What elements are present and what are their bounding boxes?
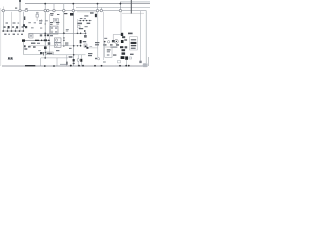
wire x28 drop [28,33,30,38]
IC U1 box [50,26,58,34]
capacitor dark x81 [80,59,82,62]
transistor dark blob x127 [125,56,128,59]
connector row 3 [131,42,137,44]
label above line x63 [60,63,66,66]
tube pin circle P10 [119,9,121,11]
node bottom x128.6 [128,65,130,67]
node rail b [7,30,9,32]
wire top bus V3 [76,7,150,9]
label row1 left d [22,26,24,27]
label row1 left b [12,26,14,28]
relay box upper [54,38,61,42]
label row2 left c [13,34,15,35]
label x88 y23 [87,23,91,24]
component dark x45 y47 [44,46,47,49]
label dash x34 y22 [34,22,36,23]
wire up from connector [147,57,149,66]
diode box x85 [84,44,87,47]
label dash near x16 [15,8,17,9]
label dash x58 [57,14,59,15]
node y33 x64 [63,32,65,34]
component small box x26 y10 [25,10,27,12]
wire drop P1 [2,12,4,31]
label right of IC b [66,30,68,33]
label 30- above table [128,33,133,35]
label dash x81 y18 [80,17,83,20]
label rowA left b [13,22,16,23]
label x34 y47 [33,46,36,48]
wire x64 y33-46 [63,33,65,46]
node y33 x85 [85,33,87,35]
relay box lower [54,43,61,47]
wire drop x63 [63,4,65,10]
symbol in transformer [107,54,110,55]
label dash x132 y54 [130,54,134,55]
wire top bus V2 [25,3,150,5]
wire x81 up [80,55,82,59]
tube pin circle P8 [96,9,98,11]
wire drop x11 [10,12,12,31]
pin circle x98.6 y59 [98,58,100,60]
node x105 y41 [104,41,106,43]
component dark x73 y60 [73,59,75,62]
node x45 y52.4 [45,52,46,53]
label x41 y35 [40,34,42,36]
label light right of blob [129,57,131,59]
node bottom x54 [53,65,55,67]
wire long vertical x97 [97,12,99,58]
wire drop x73 [72,4,74,10]
node x73 y54.8 [73,54,75,56]
label x29 y46 [28,46,31,48]
label dark col y50 [122,49,126,51]
wire x57 drop [56,58,58,66]
label x49 y43 [48,42,50,45]
label x80 y28 [79,28,83,29]
label x46 y20 [45,20,48,21]
transistor circle x116 [115,40,119,44]
component dark seg x24 [24,16,25,20]
node x97 [97,3,99,5]
wire x78 seg [77,55,79,59]
node y20 b [83,20,84,21]
component dark x122 y41 [121,40,124,43]
label x125 y40 [124,39,127,40]
wire heater bus lower pair [77,11,97,13]
wire rail y45.8 [29,45,81,47]
box small x78 y26 [78,26,80,28]
component x67 dark seg [66,62,67,65]
component dark x85 y35 [84,35,86,38]
IC U1 pin circle 2 [51,31,53,33]
label dash x32 [31,26,34,29]
wire drop x97 [97,4,99,10]
label row1 left a [4,26,6,28]
label x86 y15 [84,15,88,16]
wire stub x7.5 [7,28,9,31]
component dark x113 y41 [112,40,115,42]
connector grey blob right [143,63,148,67]
wire x140 vertical [140,11,142,63]
node y20 d [89,20,90,21]
label x105 y45 [104,44,107,45]
node x64 y37.9 [63,37,65,39]
connector row 4 [131,45,136,46]
node bottom x79 [78,65,80,67]
component x140 bottom [139,61,141,63]
wire vertical x121 [120,12,122,33]
wire dark vertical x131 [130,0,132,14]
wire bottom line [2,65,144,67]
label dark col y53 [122,52,126,54]
IC U1 pad 1 [55,27,57,29]
label faint x90 y46 [90,45,93,48]
wire dark x43 [42,52,44,55]
label dash x28 y22 [28,22,31,23]
wire x105 up [104,42,106,47]
capacitor dark x80 [80,40,82,43]
label x84 y41 [83,41,86,42]
label text x57 r1 [56,22,59,23]
node bottom x70.8 [70,65,72,67]
wire x67 drop [66,55,68,66]
label dash x40 [40,27,42,30]
node y45.8 x73 [73,45,75,47]
node x120 [120,3,122,5]
label x57 y50 [56,50,59,51]
wire faint x41.3 [40,19,42,24]
node bottom x120 [119,65,121,67]
wire y47.9 to x97.8 [88,47,97,49]
label x33 y43 [31,43,35,44]
wire long vertical x45 [44,12,46,58]
node x45 y23.8 [45,23,46,24]
wire x127 drop [126,60,128,66]
component blob x24 y25 [23,24,25,27]
node rail f [23,30,25,32]
label x90 y55.5 [88,55,92,56]
node rail d [15,30,17,32]
node bottom x83 [82,65,84,67]
wire left rail [2,30,24,32]
label x40 y20 [39,20,42,21]
IC U1 pad 2 [55,31,57,33]
label in transformer [107,49,111,50]
diode dark mark [85,46,87,48]
label in transformer2 [107,51,110,52]
wire x77 stub [77,29,79,33]
component blob left c [16,26,18,28]
wire drop x45 [44,4,46,10]
tube pin circle P5 [53,9,55,11]
node x73 [72,3,74,5]
relay circle upper [55,39,57,41]
label text x51 r2 [50,24,53,25]
label inside box x29 [30,35,32,36]
box small x29 y34 [29,34,33,38]
wire x81 drop [80,62,82,66]
diode arrow dark x87 [86,47,88,49]
label Fc in box [24,48,27,49]
label text x52 top [50,13,54,14]
node x64 y40 [63,40,65,42]
label dash x104 y62 [103,62,106,63]
label x91 y13 [90,12,94,13]
label text x51 r1 [50,22,53,23]
wire vertical x103 [102,12,104,60]
node y40 x49 [48,40,50,42]
tube pin circle P6 [63,9,65,11]
box transformer x105 [105,47,112,57]
wire x40.7 drop [40,58,42,66]
wire drop T1 [19,0,21,9]
label below IC [50,35,53,36]
wire long vertical x73 [73,12,75,66]
node y45.8 x77 [77,45,78,46]
label right of IC a [66,28,69,31]
label dash x114 y55 [113,54,116,55]
node x45 y57.9 [44,57,46,59]
node y33 x45 [44,33,46,35]
wire seg y20.5 [78,20,92,22]
node bottom x95 [94,65,96,67]
component dots x45 y35 [44,34,46,36]
label dark col y37 [122,36,125,38]
component dark x24 y45 [24,45,26,47]
wire x80 drop [80,43,82,46]
label x79 y23 [77,23,82,25]
tube pin circle P4 [47,9,49,11]
node rail a [3,30,5,32]
wire y57.9 [41,57,68,59]
capacitor C dark x96 [95,14,97,17]
label x66 y45 [65,44,68,45]
box B2 left edge [24,42,42,55]
component dark x122 y34 [121,33,123,36]
label caption underline [8,59,13,61]
label dash x85 y18 [84,17,86,20]
label x90 y54 [88,53,92,54]
wire right inner line [122,12,144,14]
wire x78 drop [77,62,79,67]
label row2 left b [8,34,10,35]
label above resistor [36,12,39,13]
node y33 x77 [77,33,79,35]
wire drop P2 [19,12,21,31]
wire y54.8 [53,54,85,56]
label x66 y43 [65,43,68,44]
node y20 c [86,20,87,21]
label x126 y47 [125,46,128,48]
label dash x39 y50 [38,49,41,52]
component blob Q left [8,26,10,28]
wire drop x23.5 [23,12,25,31]
tube pin circle P9 [100,9,102,11]
wire x37 stub2 [36,18,38,21]
label x38 y43 [37,43,40,44]
label x97 y59 [95,58,97,59]
label dark col y57 [121,56,125,59]
label x85 y26 [85,26,88,27]
label x111 y45 [110,44,113,45]
node y40 x42 [41,40,43,42]
node x80 y46 [80,45,82,47]
label dash near x26 [25,7,27,10]
box right top seg [113,34,122,36]
node x45 [44,3,46,5]
node rail c [11,30,13,32]
node rail e [19,30,21,32]
label text x65 [64,13,67,14]
label inside small box [54,19,57,20]
label row y47 [110,47,117,48]
node y33 x80 [80,33,82,35]
boxed label x46-53 [46,52,53,55]
node bottom x126 [125,65,127,67]
connector row 5 [131,48,136,49]
component very dark blob x23 [22,39,25,41]
wire vertical x49 [48,14,50,55]
label caption on line [25,65,35,67]
component dots x48 y35 [47,34,49,36]
tube pin circle P3 [44,9,46,11]
label x104 y38 [104,38,107,39]
label rowA left a [6,22,9,23]
node x64 y46 [63,45,65,47]
component dark x121 y47 [120,46,123,48]
wire stub x3.3 above circle [2,7,4,10]
component dark dash x45 [44,39,47,41]
wire x85 drop [85,33,87,37]
wire x113 drop [112,35,114,41]
label caption 2.2b [11,57,13,59]
IC U1 pin circle 1 [51,27,53,29]
box small x54-58 [53,18,58,22]
node bottom x44.8 [44,65,46,67]
wire top bus V1 [120,1,150,3]
label row2 left a [4,34,6,35]
label rowA left c [18,23,20,24]
fuse circle x78 [77,59,79,62]
component dark x84 y30 [84,30,86,32]
pin circle x108 [107,41,109,43]
component blob x26 [25,26,27,28]
label x70 y57 [69,56,73,58]
connector table x130 [130,37,138,50]
label text x57 r2 [56,23,59,26]
connector row 2 [131,39,136,40]
wire right box top [122,11,146,63]
symbol box x118 y61 [118,61,121,63]
label text x52 top2 [50,14,53,17]
relay circle lower [55,44,57,46]
wire drop x54 [53,4,55,10]
label caption 2.2 [8,57,10,59]
wire x37 stub [36,12,38,14]
wire long vertical x64 [63,12,65,34]
transistor dot [116,41,117,42]
tube pin circle P7 [72,9,74,11]
component dark block x71 [70,13,73,16]
wire x77 upper [77,19,79,26]
label row2 left e [21,34,23,35]
wire drop x101 [100,8,102,10]
wire heater bus [1,10,122,12]
node T1 top [19,0,21,2]
node y20 a [80,20,81,21]
text in boxed label [47,53,53,54]
tube pin circle P1 [2,9,4,11]
wire drop x120 [119,2,121,10]
wire left frame [0,8,2,66]
wire mid rail y33 [29,32,86,34]
label x70 y48 [69,48,72,49]
component dark dash x37 [35,40,39,41]
label x117 y45 [116,44,119,46]
wire dark row y40 [23,39,51,41]
tube pin circle P2 [19,9,21,11]
label dash x40 y22.6 [39,23,42,24]
label dark x41 y53 [40,52,42,54]
label row2 left d [17,34,19,35]
label x97 y42 [95,42,99,43]
label x73 y63 [73,63,75,64]
resistor R x37 [36,14,38,17]
label x97 y44 [95,44,99,45]
wire stub x15.5 [15,28,17,31]
node bottom x101.5 [101,65,103,67]
